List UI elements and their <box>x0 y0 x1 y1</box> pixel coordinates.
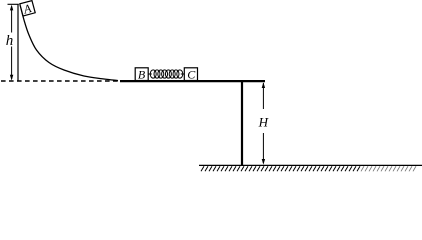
svg-text:H: H <box>258 115 269 130</box>
svg-text:h: h <box>6 33 14 49</box>
svg-text:C: C <box>187 67 196 81</box>
svg-text:B: B <box>138 67 146 81</box>
